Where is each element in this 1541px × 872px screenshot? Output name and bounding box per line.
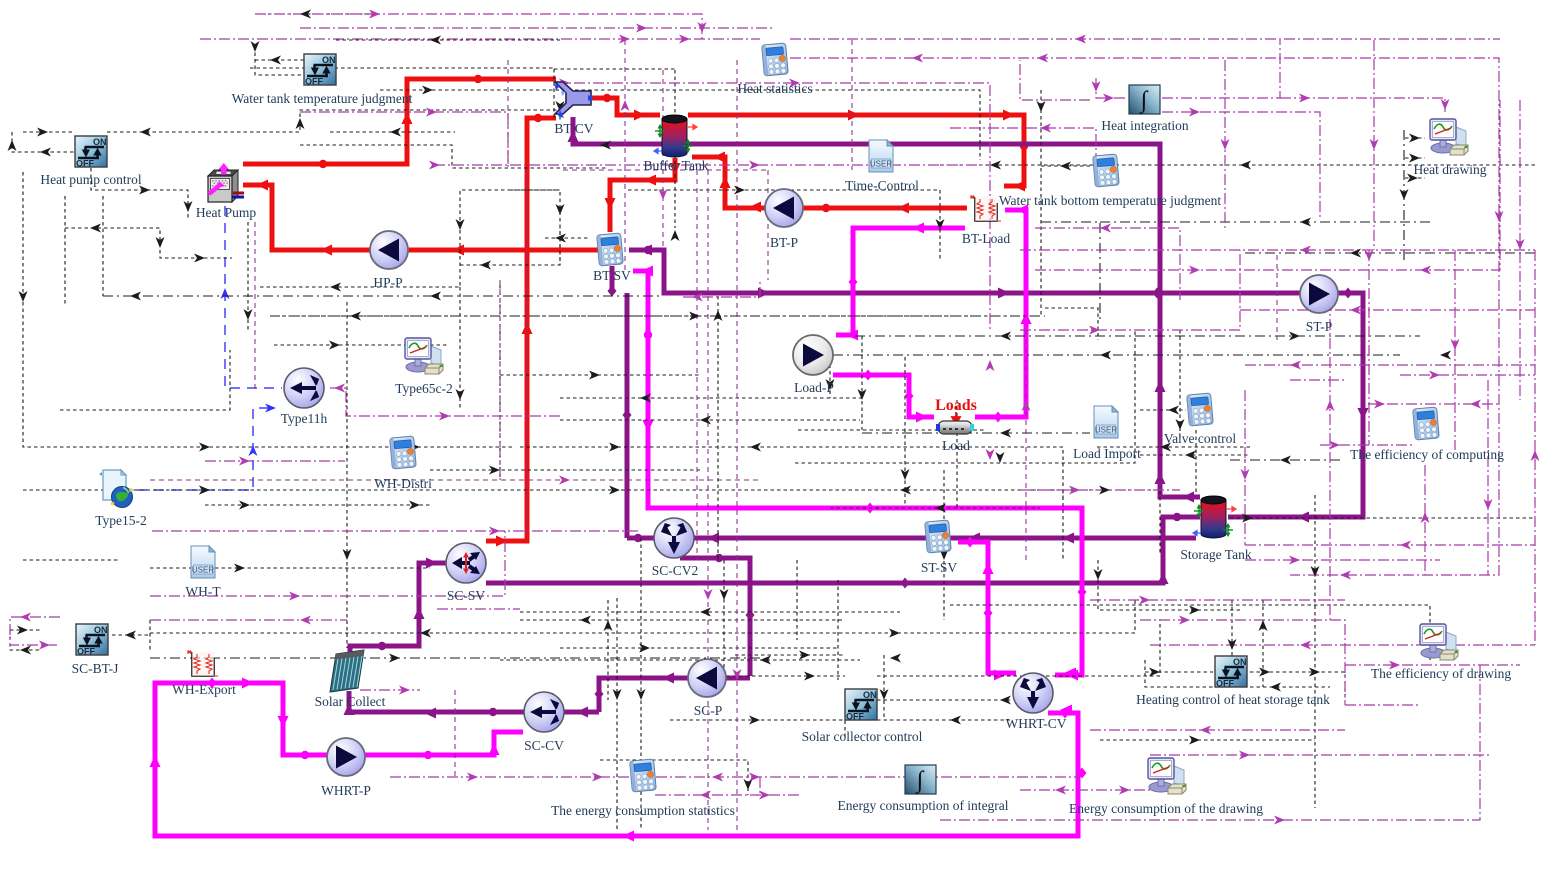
svg-text:The energy consumption statist: The energy consumption statistics (551, 803, 735, 818)
svg-text:BT SV: BT SV (593, 268, 631, 283)
wire BT-Load to BT-P to buffer tank bottom (692, 157, 967, 208)
calculator Heat statistics (762, 43, 789, 76)
user file Load Import (1094, 406, 1118, 438)
wire SC-SV to storage tank mid port (486, 517, 1200, 583)
hx WH-Export (187, 650, 218, 676)
wire big waste-heat loop (into WHRT-CV top-right) (633, 271, 1082, 675)
svg-text:ST-P: ST-P (1306, 319, 1333, 334)
svg-text:Loads: Loads (935, 397, 977, 414)
wire buffer tank out via y293 to ST-P then down to storage tank right (629, 250, 1300, 293)
wire BT-CV stub down to main purple return, across to storage tank top (573, 117, 1200, 497)
wire Load out up to BT-Load right (975, 210, 1026, 417)
calculator WH-Distri (390, 436, 417, 469)
svg-text:WHRT-P: WHRT-P (321, 783, 371, 798)
pump WHRT-P (327, 738, 365, 776)
pump ST-P (1300, 275, 1338, 313)
wire heat pump top to BT-CV (243, 79, 556, 164)
plotter The efficiency of drawing (1420, 624, 1458, 660)
buffer tank (662, 115, 687, 157)
svg-text:Heat drawing: Heat drawing (1413, 162, 1486, 177)
pump HP-P (370, 231, 408, 269)
svg-text:Load: Load (942, 438, 970, 453)
wire heat pump right down to HP-P line to BT-SV (243, 185, 598, 250)
svg-text:Solar collector control: Solar collector control (802, 729, 923, 744)
svg-text:Heat pump control: Heat pump control (40, 172, 141, 187)
hx BT-Load (970, 195, 1001, 221)
solar collector (330, 650, 364, 692)
wire SC-P line to SC-CV to solar bottom (599, 678, 750, 712)
calculator Water tank bottom temperature judgment (1093, 154, 1120, 187)
pump SC-P (688, 659, 726, 697)
svg-text:WH-Distri: WH-Distri (374, 476, 432, 491)
wire ST-SV stub down to WHRT-CV left (958, 542, 1016, 673)
valve Type11h (284, 368, 324, 408)
svg-text:SC-P: SC-P (694, 703, 723, 718)
svg-text:Type65c-2: Type65c-2 (395, 381, 453, 396)
wire BT-SV drop (610, 266, 615, 293)
calculator BT-SV (597, 233, 624, 266)
controller SC-BT-J (76, 624, 108, 657)
valve SC-SV (446, 543, 486, 583)
svg-text:BT-P: BT-P (770, 235, 798, 250)
wire buffer tank top to BT-Load (688, 115, 1024, 186)
red arrows and junctions (402, 112, 413, 124)
wire solar top to SC-SV (350, 563, 446, 652)
svg-text:SC-SV: SC-SV (447, 588, 486, 603)
plotter Energy consumption of the drawing (1148, 758, 1186, 794)
wire SC-SV riser to BT-CV lower branch (486, 118, 556, 541)
calculator The energy consumption statistics (630, 759, 657, 792)
valve SC-CV2 (654, 518, 694, 558)
user file WH-T (191, 546, 215, 578)
svg-text:Buffer Tank: Buffer Tank (644, 158, 709, 173)
wire BT-CV to buffer tank top (592, 98, 660, 115)
plotter Type65c-2 (405, 338, 443, 374)
svg-text:Energy consumption of the draw: Energy consumption of the drawing (1069, 801, 1263, 816)
svg-text:SC-CV2: SC-CV2 (652, 563, 699, 578)
svg-text:Type15-2: Type15-2 (95, 513, 147, 528)
wire buffer tank bottom to BT-SV (610, 158, 675, 232)
svg-text:Heat Pump: Heat Pump (196, 205, 257, 220)
svg-text:Heating control of heat storag: Heating control of heat storage tank (1136, 692, 1330, 707)
wire hp-control cluster (23, 131, 75, 133)
wire blue to Type11h (225, 206, 282, 388)
wire WHRT-CV out to bottom loop back to WH-Export and WHRT-P (155, 683, 1078, 836)
doc Type15-2 (99, 470, 133, 508)
svg-text:WHRT-CV: WHRT-CV (1006, 716, 1067, 731)
svg-text:Type11h: Type11h (281, 411, 328, 426)
load cylinder (936, 421, 974, 434)
svg-text:Energy consumption of integral: Energy consumption of integral (837, 798, 1008, 813)
user file Time-Control (869, 140, 893, 172)
svg-text:The efficiency of drawing: The efficiency of drawing (1371, 666, 1512, 681)
svg-text:Water tank temperature judgmen: Water tank temperature judgment (232, 91, 413, 106)
svg-text:BT CV: BT CV (554, 121, 593, 136)
valve SC-CV (524, 692, 564, 732)
integral Heat integration (1129, 85, 1160, 115)
svg-text:Solar Collect: Solar Collect (315, 694, 386, 709)
svg-text:Load-P: Load-P (794, 380, 834, 395)
wire Load-P out to Load (833, 375, 934, 417)
plotter Heat drawing (1430, 119, 1468, 155)
calculator ST-SV (925, 520, 952, 553)
svg-text:WH-Export: WH-Export (172, 682, 236, 697)
svg-text:Time-Control: Time-Control (845, 178, 919, 193)
svg-text:Heat integration: Heat integration (1101, 118, 1189, 133)
svg-text:SC-CV: SC-CV (524, 738, 564, 753)
svg-text:Heat statistics: Heat statistics (737, 81, 812, 96)
svg-text:Valve control: Valve control (1164, 431, 1237, 446)
svg-text:BT-Load: BT-Load (962, 231, 1010, 246)
svg-text:Storage Tank: Storage Tank (1180, 547, 1251, 562)
calculator The efficiency of computing (1413, 407, 1440, 440)
wire y538 through SC-CV2 and ST-SV (627, 536, 1196, 541)
svg-text:Load Import: Load Import (1073, 446, 1141, 461)
wire buffer tank dashed box (554, 68, 675, 70)
svg-text:Water tank bottom temperature: Water tank bottom temperature judgment (999, 193, 1222, 208)
wire Type15-2 to Type11h (137, 408, 276, 490)
svg-text:ST-SV: ST-SV (921, 560, 958, 575)
valve BT-CV (555, 82, 591, 114)
svg-text:SC-BT-J: SC-BT-J (72, 661, 119, 676)
pump Load-P (793, 335, 833, 375)
svg-text:HP-P: HP-P (373, 275, 402, 290)
calculator Valve control (1187, 393, 1214, 426)
controller Solar collector control (845, 689, 877, 722)
wire SC-CV2 bottom stub to SC-P riser (680, 558, 750, 676)
svg-text:The efficiency of computing: The efficiency of computing (1350, 447, 1504, 462)
controller Heating control of heat storage tank (1215, 656, 1247, 689)
wire right-top cluster (270, 90, 1041, 316)
controller Heat pump control (75, 136, 107, 169)
wire BT-Load bottom to Load-P (836, 228, 965, 335)
svg-text:WH-T: WH-T (185, 584, 221, 599)
pump BT-P (765, 189, 803, 227)
heat pump (208, 163, 244, 202)
storage tank (1201, 496, 1226, 538)
integral Energy consumption of integral (905, 765, 936, 795)
valve WHRT-CV (1013, 673, 1053, 713)
controller Water tank temperature judgment (304, 54, 336, 87)
